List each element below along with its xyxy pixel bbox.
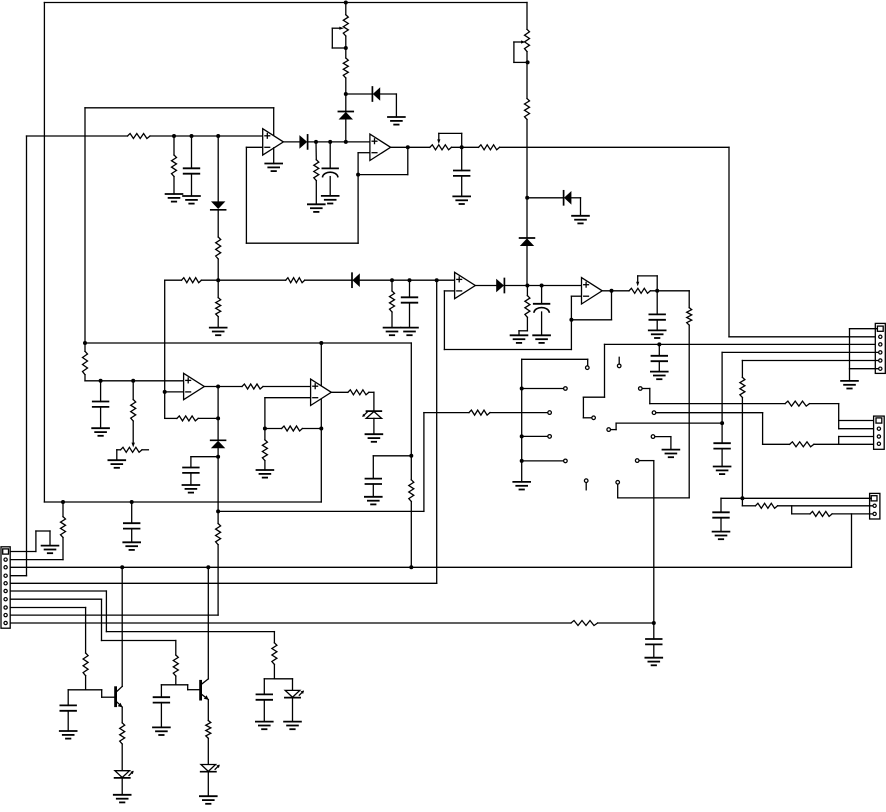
wire C16 bottom [160, 703, 162, 728]
wire R23 to J2 pins [810, 404, 877, 429]
wire D5 bottom lead [526, 246, 528, 285]
ground D6 [572, 216, 589, 224]
diode D1 [299, 135, 307, 149]
wire RV2 top lead [526, 3, 528, 30]
LED D11 [115, 771, 134, 778]
node U5 out [216, 385, 220, 389]
wire C5 top [541, 286, 543, 304]
switch contact S2 [564, 387, 568, 391]
node U3 feedback [569, 318, 573, 322]
wire U1 vplus stub [273, 108, 275, 136]
wire C14 top [131, 502, 133, 523]
potentiometer RV3 element [430, 145, 452, 150]
wire U5 inv input [165, 391, 184, 393]
wire C2 bottom [329, 177, 331, 196]
potentiometer RV1 wiper [332, 27, 347, 48]
wire R25 down [741, 398, 743, 499]
wire U4 inv input [571, 295, 581, 297]
wire R19 left lead [265, 428, 282, 430]
wire Q1 base rail [68, 690, 114, 697]
capacitor C7 [652, 356, 668, 361]
wire feedback to U4 out [571, 291, 611, 320]
diode D5 [520, 238, 535, 246]
diode D9 [211, 440, 226, 448]
wire x164 vertical [164, 280, 166, 418]
switch contact S3 [548, 411, 552, 415]
capacitor C2 [322, 168, 338, 176]
node x321 feedback [319, 427, 323, 431]
ground C9 [92, 428, 109, 436]
wire R3 bottom [315, 181, 317, 205]
wire bottom feedback rail [44, 501, 321, 503]
wire R18 to J4 pin9 [10, 545, 218, 615]
ground C12 [713, 532, 730, 540]
diode D2 [338, 112, 353, 120]
wire D6 right lead [571, 198, 580, 216]
node rail502 R29 [61, 500, 65, 504]
wire right vertical to J1 pin2 [729, 147, 878, 336]
node bus tap3 [520, 459, 524, 463]
wire C12 bottom [720, 518, 722, 532]
wire S12 to gnd [655, 437, 671, 450]
wire R12 to switch [618, 325, 690, 498]
node R4 D4 [344, 92, 348, 96]
op-amp U1 [263, 129, 284, 155]
connector J1 [875, 323, 885, 373]
wire R6 to D6 node [526, 120, 528, 239]
wire J1 pin5 [742, 361, 877, 378]
wire S8 stub [585, 483, 587, 490]
connector J4 [1, 547, 10, 628]
wire D2 bottom lead [345, 120, 347, 142]
connector J2 [874, 416, 885, 449]
wire bus tap1 [522, 388, 563, 390]
node U5 plus C9 [99, 379, 103, 383]
wire x411 vertical upper [410, 343, 412, 480]
wire R26 to pin2 [778, 505, 873, 507]
ground C8 [365, 497, 382, 505]
wire C10 jog [191, 457, 218, 468]
wire R11 bottom jog [519, 317, 527, 335]
node R13 rail [409, 565, 413, 569]
node rail2 x436 [435, 278, 439, 282]
node RV2 [526, 60, 530, 64]
wire U6 out [331, 391, 348, 393]
wire J1 pin4 [722, 352, 878, 443]
capacitor C6 [649, 314, 665, 319]
wire C14 bottom [131, 529, 133, 543]
wire Q1 collector [121, 567, 123, 686]
wire D1 to U2 [308, 141, 370, 143]
wire RV1 to R4 [345, 48, 347, 58]
resistor R7 [182, 278, 202, 283]
wire R21 to Z1 [369, 392, 374, 411]
op-amp U2 [370, 134, 391, 160]
transistor Q2 [201, 679, 209, 700]
wire tap511 to switch [218, 413, 469, 512]
potentiometer RV3 wiper [437, 133, 462, 147]
wire R11 top [526, 286, 528, 296]
wire D3 to R9 [217, 210, 219, 237]
wire R2 bottom [173, 177, 175, 195]
wire x321 vertical [320, 343, 322, 502]
wire C15 bottom [263, 700, 265, 722]
diode D4 [372, 87, 380, 101]
potentiometer RV2 element [525, 29, 530, 51]
wire collector rail [10, 566, 851, 568]
wire C1 top [191, 136, 193, 168]
wire D10 bottom [292, 698, 294, 722]
resistor R11 [525, 296, 530, 318]
wire R20 top [264, 429, 266, 440]
wire C1 bottom [191, 174, 193, 196]
node rail2 R8 [390, 278, 394, 282]
node rail2 C4 [408, 278, 412, 282]
wire C6 bottom [656, 320, 658, 331]
node RV1 [344, 46, 348, 50]
switch contact S10 [652, 411, 656, 415]
capacitor C16 [154, 697, 170, 702]
wire x218 down1 [217, 387, 219, 441]
wire C3 bottom [461, 176, 463, 197]
ground C16 [153, 727, 170, 735]
wire U5 out [204, 386, 242, 388]
resistor R24 [790, 442, 814, 447]
wire bus tap2 [522, 435, 548, 437]
wire RV1 to node [345, 36, 347, 48]
resistor R26 [755, 503, 777, 508]
ground D4 [388, 117, 405, 125]
node rail2 x218 [216, 278, 220, 282]
wire C8 bottom [372, 484, 374, 497]
wire C3 top [461, 147, 463, 170]
wire railA [85, 342, 411, 344]
wire S11 to pin4 net [611, 423, 722, 430]
resistor R10 [216, 298, 221, 317]
wire bus top [522, 359, 588, 365]
wire J4 pin1 gnd [10, 531, 50, 552]
wire R22 to contact [490, 412, 547, 414]
wire R4 to node94 [345, 78, 347, 94]
wire C9 top [100, 381, 102, 402]
wire R24 to J2 pins [814, 437, 877, 445]
ground R8 [384, 328, 401, 336]
switch contact S1 [586, 366, 590, 370]
resistor R9 [216, 237, 221, 259]
wire C4 top [409, 280, 411, 297]
node S11 junction [720, 421, 724, 425]
ground D10 [284, 722, 301, 730]
node top rail to RV1 [344, 1, 348, 5]
switch contact S11 [607, 428, 611, 432]
wire feedback to U2 out [358, 147, 408, 174]
node D1 C2 [328, 140, 332, 144]
ground C1 [183, 196, 200, 204]
switch contact S4 [548, 435, 552, 439]
ground C15 [256, 722, 273, 730]
node pin10 C13 [652, 621, 656, 625]
wire S7 stub [618, 357, 620, 363]
capacitor C3 [454, 171, 470, 176]
LED D10 [285, 690, 304, 697]
wire R2 top [173, 136, 175, 155]
node RV3 out [460, 145, 464, 149]
capacitor C14 [124, 523, 140, 528]
connector J3 [870, 493, 880, 519]
wire R20 bottom [264, 461, 266, 470]
ground C6 [649, 330, 666, 338]
potentiometer RV5 wiper arrow [132, 421, 135, 447]
ground C14 [123, 542, 140, 550]
wire C16 top [160, 685, 162, 697]
wire cell3 left [264, 679, 274, 695]
resistor R8 [390, 291, 395, 312]
ground R3 [308, 204, 325, 212]
wire R13 bottom [410, 502, 412, 568]
wire bus tap3 [522, 460, 563, 462]
wire R12 top lead [688, 291, 690, 308]
ground R20 [257, 470, 274, 478]
node rail1 R2 [172, 134, 176, 138]
wire rail1 mid [150, 135, 263, 137]
ground C3 [453, 196, 470, 204]
wire U1 feedback bottom [246, 153, 358, 244]
node railA x321 [319, 341, 323, 345]
ground R2 [166, 194, 183, 202]
capacitor C5 [534, 304, 550, 312]
wire Q2 emitter [207, 700, 209, 721]
wire R15 top [132, 381, 134, 400]
wire R17 to U6 [263, 386, 311, 388]
zener Z1 [362, 411, 381, 418]
wire U3 inv input [444, 291, 454, 350]
wire S13 down [640, 461, 654, 623]
resistor R29 [61, 517, 66, 538]
switch contact S12 [651, 435, 655, 439]
ground J1 [841, 381, 858, 389]
ground C13 [645, 658, 662, 666]
resistor R7b [286, 278, 305, 283]
resistor R15 [131, 400, 136, 422]
ground J4 pin1 [42, 546, 59, 554]
node pole C7 [657, 342, 661, 346]
wire pole rail [605, 343, 878, 345]
wire R16 to node [198, 417, 218, 419]
wire U1 gnd stub [273, 148, 275, 164]
resistor R22 [469, 410, 490, 415]
capacitor C8 [366, 479, 382, 484]
ground R10 [210, 328, 227, 336]
resistor R28 [571, 621, 598, 626]
wire C7 bottom [658, 361, 660, 371]
switch contact S7 [617, 364, 621, 368]
wire R28 to node [598, 622, 654, 624]
resistor R1 [128, 134, 151, 139]
wire D12 bottom [207, 772, 209, 796]
wire C11 bottom [721, 449, 723, 467]
wire U1 inv input [246, 147, 262, 243]
resistor R23 [785, 401, 809, 406]
wire rail2 mid2 [305, 279, 352, 281]
node U2 out [406, 145, 410, 149]
wire D8 to U4 [505, 285, 582, 287]
wire rail2 mid [201, 279, 285, 281]
resistor R2 [172, 155, 177, 177]
wire Q2 base rail [161, 685, 199, 690]
ground Z1 [366, 434, 383, 442]
resistor R4 [343, 58, 348, 78]
capacitor C4 [402, 297, 418, 302]
wire pin5 rail [10, 582, 437, 584]
wire R5 to corner [500, 146, 729, 148]
wire rail2 left corner [165, 279, 182, 281]
node U5 inv [163, 390, 167, 394]
resistor R6 [525, 99, 530, 120]
node D8 C5 [540, 284, 544, 288]
switch contact S8 [584, 479, 588, 483]
wire rail567 riser [851, 514, 853, 567]
node railA left [83, 341, 87, 345]
wire C12 jog [721, 498, 742, 512]
wire J3 pin1 [742, 497, 871, 499]
wire D3 top lead [217, 136, 219, 201]
resistor R16 [177, 416, 198, 421]
wire input rail vertical [10, 136, 26, 576]
resistor R33 [120, 723, 125, 744]
switch contact S6 pole [592, 416, 596, 420]
wire C6 top [656, 291, 658, 315]
capacitor C1 [184, 168, 200, 173]
op-amp U5 [184, 373, 205, 399]
wire bus vertical [521, 359, 523, 482]
node U5 plus RV5 [131, 379, 135, 383]
resistor R14 [83, 351, 88, 374]
potentiometer RV1 element [343, 15, 348, 36]
wire RV5 right stub [142, 449, 148, 451]
node x411 cap tap [409, 454, 413, 458]
potentiometer RV4 wiper [636, 276, 657, 291]
wire D4 right lead [380, 94, 396, 117]
capacitor C13 [646, 639, 662, 644]
capacitor C10 [183, 468, 199, 473]
wire R10 top [217, 280, 219, 297]
diode D7 [352, 273, 360, 287]
wire top rail [44, 2, 527, 4]
wire C13 top [653, 623, 655, 639]
wire R14 corner [85, 375, 184, 381]
node J3 pin1 [740, 496, 744, 500]
wire J1 pin6 gnd [850, 368, 879, 370]
wire RV4 to R12 [650, 290, 689, 292]
wire J4 pin2 [10, 538, 63, 560]
wire RV2 to node [526, 52, 528, 63]
ground R11 [511, 335, 528, 343]
wire C9 bottom [100, 407, 102, 428]
resistor R17 [242, 384, 263, 389]
wire Q2 collector [207, 567, 209, 679]
node rail1 C1 [190, 134, 194, 138]
switch contact S9 [639, 387, 643, 391]
node D1 x346 [344, 140, 348, 144]
wire RV1 top lead [345, 3, 347, 15]
wire U6 inv input [265, 398, 311, 429]
wire x85 vertical [84, 108, 86, 343]
wire C5 bottom [541, 312, 543, 335]
wire U3 out [475, 285, 496, 287]
resistor R32 [83, 653, 88, 676]
ground C4 [401, 328, 418, 336]
node x218 tap511 [216, 509, 220, 513]
op-amp U4 [582, 278, 603, 304]
wire J4 pin8 [10, 608, 85, 654]
wire RV3 to R5 [452, 146, 479, 148]
wire J3 pin2 lead [742, 498, 755, 506]
ground D12 [200, 796, 217, 804]
wire pole step [583, 344, 604, 417]
node bus tap1 [520, 387, 524, 391]
resistor R21 [348, 390, 369, 395]
ground U1 [265, 164, 282, 172]
wire R9 to rail2 [217, 259, 219, 280]
node D8 R11 [525, 284, 529, 288]
wire R32 bottom [85, 676, 87, 690]
wire Z1 bottom [373, 418, 375, 434]
node U1 feedback [356, 173, 360, 177]
wire pin10 rail [10, 622, 571, 624]
diode D3 [211, 201, 226, 209]
capacitor C12 [713, 512, 729, 517]
wire C4 bottom [409, 303, 411, 328]
transistor Q1 [116, 686, 123, 707]
potentiometer RV5 element [121, 447, 143, 452]
wire U3 feedback bottom [444, 296, 571, 349]
capacitor C9 [93, 402, 109, 407]
wire R8 top [391, 280, 393, 291]
diode D6 [564, 191, 572, 205]
node U6 fb [263, 427, 267, 431]
node U5 fb [216, 416, 220, 420]
op-amp U6 [311, 379, 332, 405]
wire U4 out [602, 290, 629, 292]
switch contact S5 [564, 459, 568, 463]
wire Q1 emitter [121, 707, 123, 722]
wire D6 left lead [527, 197, 563, 199]
wire R30 bottom [273, 664, 275, 678]
node Q2 collector [206, 565, 210, 569]
wire cell3 right [274, 679, 292, 691]
ground C17 [60, 731, 77, 739]
wire U1 out [283, 141, 299, 143]
wire C17 bottom [67, 711, 69, 731]
node Q1 collector [120, 565, 124, 569]
resistor R13 [409, 480, 414, 502]
wire R27 to pin3 [832, 513, 872, 515]
wire U5 fb corner [165, 417, 177, 419]
capacitor C11 [714, 443, 730, 448]
node D1 R3 [314, 140, 318, 144]
wire R3 top [315, 142, 317, 160]
resistor R27 [810, 511, 832, 516]
wire D4 left lead [346, 93, 373, 95]
switch contact S14 [616, 481, 620, 485]
resistor R18 [216, 524, 221, 545]
node bus tap2 [520, 434, 524, 438]
potentiometer RV2 wiper [514, 40, 528, 62]
wire R31 bottom [175, 676, 177, 685]
ground C10 [183, 485, 200, 493]
resistor R30 [272, 643, 277, 665]
ground bus [513, 482, 530, 490]
